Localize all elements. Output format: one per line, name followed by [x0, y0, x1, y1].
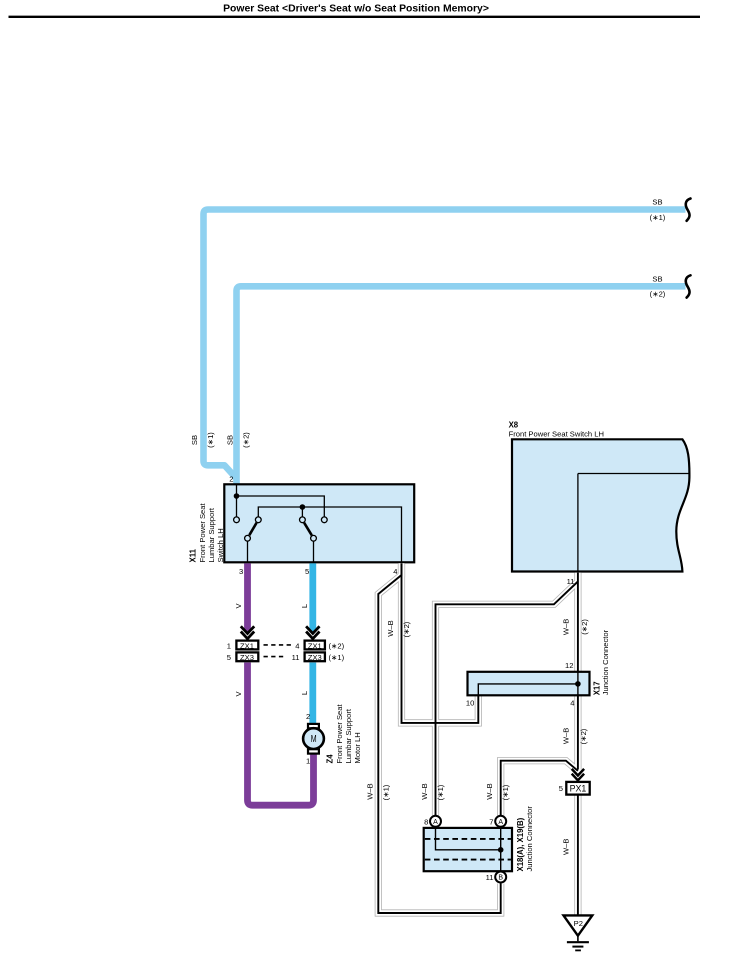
wire V purple: ZX3 to motor pin1 — [248, 663, 314, 806]
svg-text:10: 10 — [466, 699, 474, 708]
X11 contact circle mid bus — [300, 517, 306, 523]
X11 internal: junction dot pin2 — [234, 493, 240, 499]
svg-text:7: 7 — [489, 817, 493, 826]
svg-text:3: 3 — [239, 567, 243, 576]
svg-text:(∗1): (∗1) — [206, 432, 215, 448]
svg-text:SB: SB — [190, 435, 199, 445]
wire W-B (*1): X11 pin4 to X18 pin 11(B) — [378, 563, 500, 913]
svg-text:SB: SB — [226, 435, 235, 445]
X8 switch box with torn right edge — [512, 439, 689, 571]
wire W-B (*1): X18 pin 7(A) up to PX1 arrow — [501, 761, 578, 816]
motor Z4 top brush block — [308, 724, 319, 728]
svg-text:(∗2): (∗2) — [580, 619, 589, 635]
X11 internal: line y507 bus to pin4 — [258, 507, 401, 562]
svg-text:W–B: W–B — [366, 783, 375, 799]
wire SB (*1) from top-right to X11 pin 2 — [204, 210, 686, 479]
svg-text:ZX3: ZX3 — [308, 653, 322, 662]
svg-text:(∗2): (∗2) — [329, 641, 345, 650]
svg-text:SB: SB — [652, 274, 662, 283]
X18 internal vertical pin7 to pin11 — [500, 828, 502, 871]
motor Z4 labels — [326, 704, 362, 764]
X11 labels — [189, 503, 225, 563]
X11 internal: pin2 stem — [236, 485, 238, 496]
X11 pole circle right — [311, 535, 317, 541]
svg-text:(∗2): (∗2) — [242, 432, 251, 448]
svg-text:Power Seat <Driver's Seat w/o: Power Seat <Driver's Seat w/o Seat Posit… — [223, 4, 489, 15]
svg-text:(∗2): (∗2) — [650, 290, 666, 299]
label SB (*1) right — [650, 198, 666, 222]
X11 contact circle right — [321, 517, 327, 523]
svg-text:5: 5 — [559, 784, 563, 793]
X8 internal horizontal line — [578, 473, 689, 475]
connector ZX1 left box — [236, 641, 258, 650]
X11 contact circle left bus — [255, 517, 261, 523]
X11 internal: stem dot to contact — [301, 507, 303, 517]
wire W-B (*2): X11 pin4 to X17 pin 10 — [402, 563, 479, 723]
ground bar 2 — [572, 946, 583, 948]
X18 pin 7(A) circle — [495, 816, 506, 827]
X8 internal vertical line to pin 11 — [577, 474, 579, 572]
svg-text:2: 2 — [229, 475, 233, 484]
svg-text:Front Power Seat: Front Power Seat — [198, 503, 207, 563]
X18 labels — [516, 806, 534, 872]
junction connector X18 box — [424, 828, 512, 871]
X17 junction dot — [575, 681, 581, 687]
X18 pin 8(A) circle — [430, 816, 441, 827]
X18 dashed line lower — [425, 859, 511, 861]
X11 contact circle pin2 side — [234, 517, 240, 523]
switch X11 box — [224, 484, 414, 562]
wire L cyan: ZX3 to motor pin2 — [309, 663, 316, 724]
svg-text:11: 11 — [292, 653, 300, 662]
svg-text:W–B: W–B — [562, 839, 571, 855]
svg-text:ZX1: ZX1 — [308, 641, 322, 650]
ground bar 3 — [575, 949, 581, 951]
svg-text:8: 8 — [424, 817, 428, 826]
svg-text:A: A — [433, 819, 438, 826]
svg-text:(∗1): (∗1) — [436, 784, 445, 800]
X17 internal vertical line — [577, 672, 579, 696]
svg-text:4: 4 — [570, 699, 574, 708]
wire W-B: PX1 down to ground P2 — [577, 795, 579, 915]
X18 internal line pin8 to junction — [436, 828, 501, 850]
svg-text:X8: X8 — [509, 420, 519, 429]
X11 internal: junction dot bus — [300, 504, 306, 510]
svg-text:X11: X11 — [189, 548, 198, 562]
svg-text:W–B: W–B — [562, 619, 571, 635]
X18 dashed line upper — [425, 838, 511, 840]
svg-text:SB: SB — [652, 198, 662, 207]
svg-text:ZX1: ZX1 — [240, 641, 254, 650]
X11 internal: pole right to pin5 — [313, 541, 315, 562]
svg-text:11: 11 — [567, 577, 575, 586]
ground bar 1 — [567, 941, 589, 943]
X18 junction dot — [498, 847, 504, 853]
svg-text:W–B: W–B — [485, 783, 494, 799]
motor Z4 circle — [303, 728, 324, 749]
X18 pin 11(B) circle — [495, 872, 506, 883]
ground symbol P2 — [564, 915, 593, 950]
wire W-B: X8 pin11 down to X17 pin 12 — [577, 573, 579, 672]
connector arrow right (into ZX1) — [306, 626, 319, 638]
svg-text:M: M — [311, 733, 317, 744]
dashes between ZX rows row1 — [264, 644, 292, 646]
wire V purple: X11 pin3 to ZX1 — [244, 563, 251, 631]
svg-text:W–B: W–B — [562, 728, 571, 744]
connector arrow into PX1 — [572, 769, 584, 780]
svg-text:1: 1 — [227, 641, 231, 650]
ground stem — [577, 936, 579, 942]
svg-text:Motor LH: Motor LH — [353, 732, 362, 763]
svg-text:L: L — [300, 604, 309, 608]
svg-text:11: 11 — [486, 873, 494, 882]
motor Z4 bottom brush block — [308, 749, 319, 753]
wire SB (*2) from right to X11 pin 2 — [237, 286, 686, 485]
break symbol wire SB (*1) — [686, 199, 691, 221]
X11 switch arm right — [304, 523, 312, 536]
X17 internal horizontal line to pin 10 — [478, 684, 578, 695]
X11 internal: stem from dot to left contact — [236, 496, 238, 517]
svg-text:2: 2 — [306, 712, 310, 721]
svg-text:(∗1): (∗1) — [501, 784, 510, 800]
svg-text:5: 5 — [227, 653, 231, 662]
svg-text:Front Power Seat: Front Power Seat — [335, 704, 344, 764]
wire W-B (*2): X17 pin 4 down to PX1 — [577, 695, 579, 769]
X11 switch arm left — [249, 523, 256, 536]
svg-text:(∗1): (∗1) — [382, 784, 391, 800]
wire W-B (*1): X8 pin11 branch to X18 pin 8(A) — [436, 582, 578, 816]
W-B wires outline layer (gray) — [378, 563, 578, 915]
connector PX1 box — [566, 782, 589, 795]
svg-text:P2: P2 — [574, 919, 583, 928]
svg-text:Junction Connector: Junction Connector — [601, 629, 610, 695]
svg-text:Switch LH: Switch LH — [216, 528, 225, 562]
svg-text:W–B: W–B — [420, 783, 429, 799]
X17 labels — [593, 629, 610, 695]
svg-text:Junction Connector: Junction Connector — [525, 806, 534, 872]
svg-text:1: 1 — [306, 757, 310, 766]
svg-text:PX1: PX1 — [570, 783, 587, 793]
svg-text:(∗1): (∗1) — [650, 213, 666, 222]
svg-text:L: L — [300, 691, 309, 695]
svg-text:B: B — [498, 875, 503, 882]
svg-text:12: 12 — [565, 661, 573, 670]
svg-text:Lumbar Support: Lumbar Support — [344, 708, 353, 763]
svg-text:4: 4 — [295, 641, 299, 650]
svg-text:(∗2): (∗2) — [402, 621, 411, 637]
svg-text:5: 5 — [305, 567, 309, 576]
svg-text:W–B: W–B — [386, 620, 395, 636]
svg-text:(∗2): (∗2) — [579, 728, 588, 744]
wire L cyan: X11 pin5 to ZX1 — [309, 563, 316, 631]
svg-text:X18(A), X19(B): X18(A), X19(B) — [516, 817, 525, 871]
dashes between ZX rows row2 — [264, 656, 285, 658]
X11 internal: pole left to pin3 — [247, 541, 249, 562]
connector arrow left (into ZX1) — [241, 626, 254, 638]
svg-text:Front Power Seat Switch LH: Front Power Seat Switch LH — [509, 430, 604, 439]
label SB (*2) right — [650, 274, 666, 298]
svg-text:Z4: Z4 — [326, 754, 335, 764]
X11 internal: line y496 to right contact — [237, 496, 325, 517]
connector ZX1 right box — [305, 641, 325, 650]
W-B wires body layer (white) — [378, 563, 578, 915]
title underline — [9, 16, 701, 18]
break symbol wire SB (*2) — [686, 275, 691, 297]
svg-text:Lumbar Support: Lumbar Support — [207, 507, 216, 562]
svg-text:ZX3: ZX3 — [240, 653, 254, 662]
junction connector X17 box — [468, 672, 590, 696]
svg-text:A: A — [498, 819, 503, 826]
connector ZX3 left box — [236, 652, 258, 661]
connector ZX3 right box — [305, 652, 325, 661]
svg-text:(∗1): (∗1) — [329, 653, 345, 662]
X11 pole circle left — [245, 535, 251, 541]
